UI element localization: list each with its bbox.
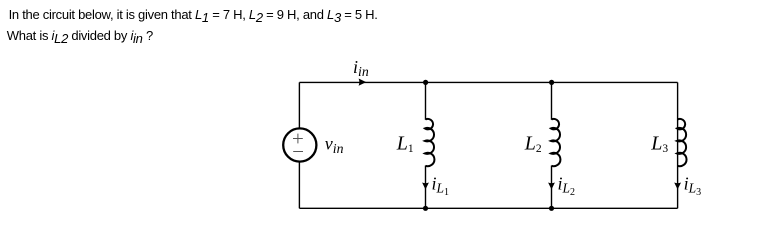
svg-text:iin: iin [353, 57, 369, 79]
node dot bottom L1 [423, 206, 428, 211]
wire right branch (L3) [677, 82, 679, 208]
svg-text:L1: L1 [396, 133, 414, 155]
svg-text:L3: L3 [650, 133, 668, 155]
svg-text:iL2: iL2 [558, 173, 576, 198]
svg-text:L2: L2 [524, 133, 542, 155]
voltage source VS [283, 128, 316, 161]
arrow i_L2 [548, 183, 555, 190]
wire L2 branch bottom [551, 166, 553, 209]
node dot bottom L2 [549, 206, 554, 211]
wire L1 branch top [425, 82, 427, 119]
arrow i_L1 [422, 183, 429, 190]
node dot top L2 [549, 80, 554, 85]
arrow i_in [359, 79, 367, 86]
inductor L1 [425, 119, 435, 166]
node dot top L1 [423, 80, 428, 85]
inductor L2 [551, 119, 561, 166]
inductor L3 [677, 119, 687, 166]
wire left branch [298, 82, 300, 208]
wire bottom rail [299, 207, 677, 209]
svg-text:vin: vin [325, 134, 344, 156]
wire L1 branch bottom [425, 166, 427, 209]
question text line 1 [9, 7, 378, 22]
wire top rail [299, 81, 677, 83]
arrow i_L3 [674, 183, 681, 190]
wire L2 branch top [551, 82, 553, 119]
svg-text:iL3: iL3 [684, 173, 702, 198]
question text line 2 [7, 28, 153, 43]
svg-text:iL1: iL1 [432, 173, 450, 198]
